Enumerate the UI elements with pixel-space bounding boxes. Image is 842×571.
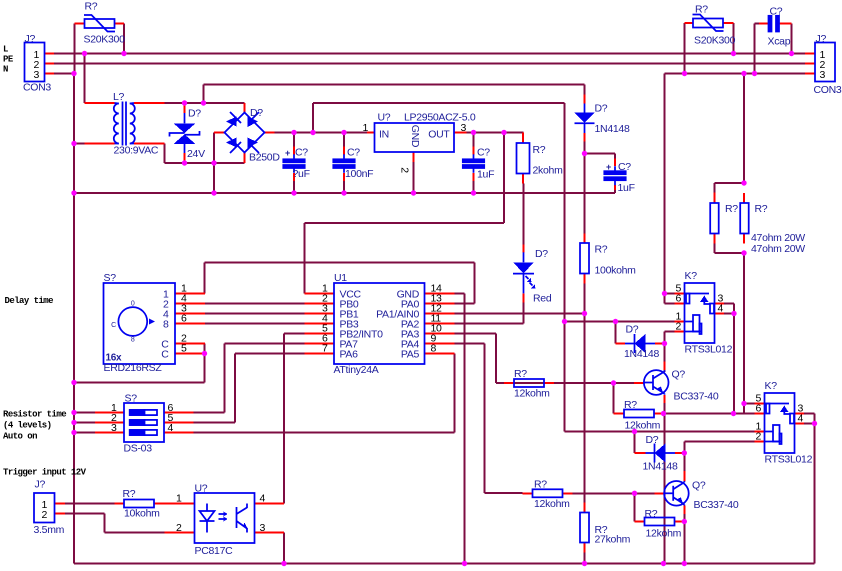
svg-text:4: 4 — [718, 303, 724, 315]
svg-text:1: 1 — [362, 122, 368, 134]
svg-text:Trigger input 12V: Trigger input 12V — [3, 468, 87, 478]
svg-text:K?: K? — [685, 270, 698, 282]
svg-text:ATtiny24A: ATtiny24A — [334, 364, 379, 376]
svg-text:C?: C? — [295, 147, 308, 159]
svg-text:+: + — [606, 162, 611, 172]
svg-text:2: 2 — [755, 431, 761, 443]
svg-text:3: 3 — [461, 122, 467, 134]
svg-text:R?: R? — [533, 144, 546, 156]
svg-text:12kohm: 12kohm — [646, 528, 682, 540]
svg-text:ERD216RSZ: ERD216RSZ — [104, 362, 163, 374]
svg-text:Auto on: Auto on — [3, 432, 37, 442]
svg-text:2: 2 — [675, 321, 681, 333]
svg-text:R?: R? — [595, 244, 608, 256]
svg-text:C?: C? — [770, 6, 783, 18]
svg-text:J?: J? — [25, 33, 36, 45]
svg-text:?uF: ?uF — [293, 168, 310, 180]
svg-text:L: L — [3, 45, 8, 55]
svg-text:R?: R? — [534, 479, 547, 491]
svg-text:3: 3 — [260, 522, 266, 534]
svg-text:6: 6 — [675, 293, 681, 305]
svg-text:D?: D? — [188, 108, 201, 120]
svg-text:S?: S? — [125, 393, 138, 405]
svg-text:R?: R? — [514, 368, 527, 380]
svg-text:10kohm: 10kohm — [124, 508, 160, 520]
svg-text:J?: J? — [816, 33, 827, 45]
svg-text:Q?: Q? — [672, 369, 686, 381]
svg-text:D?: D? — [626, 324, 639, 336]
svg-text:100nF: 100nF — [345, 168, 373, 180]
svg-text:D?: D? — [250, 107, 263, 119]
svg-text:CON3: CON3 — [814, 84, 842, 96]
svg-text:1N4148: 1N4148 — [643, 461, 678, 473]
svg-text:R?: R? — [123, 488, 136, 500]
svg-text:R?: R? — [85, 1, 98, 13]
svg-text:S20K300: S20K300 — [694, 35, 736, 47]
svg-text:12kohm: 12kohm — [514, 388, 550, 400]
svg-text:Delay time: Delay time — [5, 296, 54, 306]
svg-text:PE: PE — [3, 55, 14, 65]
svg-text:Red: Red — [533, 293, 552, 305]
svg-text:RTS3L012: RTS3L012 — [685, 344, 733, 356]
svg-text:R?: R? — [755, 203, 768, 215]
svg-text:L?: L? — [113, 91, 125, 103]
svg-text:3: 3 — [33, 69, 39, 81]
svg-text:C?: C? — [477, 147, 490, 159]
svg-text:GND: GND — [409, 125, 421, 148]
svg-text:BC337-40: BC337-40 — [694, 499, 739, 511]
svg-text:D?: D? — [646, 434, 659, 446]
svg-text:R?: R? — [695, 4, 708, 16]
svg-text:2kohm: 2kohm — [533, 165, 564, 177]
svg-text:IN: IN — [379, 128, 389, 140]
svg-text:4: 4 — [798, 413, 804, 425]
svg-text:0: 0 — [131, 301, 135, 308]
svg-text:Xcap: Xcap — [768, 36, 791, 48]
svg-text:R?: R? — [645, 508, 658, 520]
svg-text:2: 2 — [399, 167, 411, 173]
svg-text:BC337-40: BC337-40 — [674, 391, 719, 403]
svg-text:6: 6 — [755, 403, 761, 415]
svg-text:DS-03: DS-03 — [124, 443, 153, 455]
svg-text:PA5: PA5 — [401, 348, 420, 360]
svg-text:3: 3 — [111, 422, 117, 434]
svg-text:1N4148: 1N4148 — [624, 348, 659, 360]
svg-text:Q?: Q? — [692, 480, 706, 492]
svg-text:RTS3L012: RTS3L012 — [765, 454, 813, 466]
svg-text:2: 2 — [176, 522, 182, 534]
svg-text:1N4148: 1N4148 — [595, 123, 630, 135]
svg-text:D?: D? — [595, 103, 608, 115]
svg-text:K?: K? — [765, 380, 778, 392]
svg-text:12kohm: 12kohm — [534, 498, 570, 510]
svg-text:27kohm: 27kohm — [595, 534, 631, 546]
svg-text:100kohm: 100kohm — [595, 265, 637, 277]
svg-text:1: 1 — [176, 493, 182, 505]
svg-text:C?: C? — [618, 161, 631, 173]
svg-text:4: 4 — [168, 422, 174, 434]
svg-text:PA6: PA6 — [340, 348, 359, 360]
svg-text:C: C — [111, 322, 116, 329]
svg-text:3: 3 — [820, 69, 826, 81]
svg-text:47ohm 20W: 47ohm 20W — [751, 243, 805, 255]
svg-text:Resistor time: Resistor time — [3, 410, 66, 420]
svg-text:3.5mm: 3.5mm — [34, 524, 65, 536]
svg-text:N: N — [3, 65, 8, 75]
svg-text:S20K300: S20K300 — [84, 34, 126, 46]
svg-text:8: 8 — [131, 337, 135, 344]
svg-text:C: C — [161, 348, 169, 360]
svg-text:8: 8 — [163, 318, 169, 330]
svg-text:8: 8 — [431, 343, 437, 355]
svg-text:J?: J? — [35, 479, 46, 491]
svg-text:6: 6 — [181, 313, 187, 325]
svg-text:1uF: 1uF — [618, 182, 635, 194]
svg-text:R?: R? — [624, 399, 637, 411]
svg-text:(4 levels): (4 levels) — [3, 421, 52, 431]
svg-text:5: 5 — [181, 343, 187, 355]
svg-text:7: 7 — [322, 343, 328, 355]
svg-text:CON3: CON3 — [23, 82, 51, 94]
svg-text:+: + — [285, 148, 290, 158]
svg-text:S?: S? — [104, 272, 117, 284]
svg-text:R?: R? — [725, 203, 738, 215]
svg-text:C?: C? — [347, 147, 360, 159]
svg-text:U?: U? — [378, 111, 391, 123]
svg-text:B250D: B250D — [249, 152, 280, 164]
svg-text:PC817C: PC817C — [195, 545, 234, 557]
svg-text:24V: 24V — [187, 148, 205, 160]
svg-text:U1: U1 — [334, 272, 347, 284]
svg-text:U?: U? — [195, 483, 208, 495]
svg-text:2: 2 — [41, 509, 47, 521]
svg-text:230:9VAC: 230:9VAC — [114, 145, 159, 157]
svg-text:D?: D? — [535, 248, 548, 260]
svg-text:4: 4 — [260, 493, 266, 505]
svg-text:12kohm: 12kohm — [625, 420, 661, 432]
svg-text:OUT: OUT — [428, 128, 450, 140]
svg-text:1uF: 1uF — [477, 169, 494, 181]
